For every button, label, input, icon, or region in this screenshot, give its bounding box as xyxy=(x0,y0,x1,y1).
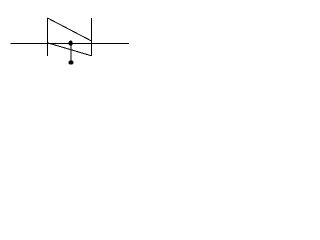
upper diagonal (top of left plate to wire level of right plate) xyxy=(48,18,92,41)
wire: right lead MT2 xyxy=(92,43,129,45)
left plate (electrode bar) xyxy=(47,18,49,56)
gate terminal ball xyxy=(69,60,74,64)
junction dot (gate node on wire) xyxy=(68,41,72,46)
lower diagonal (wire level of left plate to bottom of right plate) xyxy=(48,43,92,56)
triac Q1 (two electrode plates with anti-parallel triangle diagonals, gate tap with ball terminal) xyxy=(0,0,138,85)
right plate (electrode bar) xyxy=(91,18,93,56)
wire: left lead MT1 xyxy=(10,43,47,45)
gate stub wire xyxy=(70,43,72,61)
wire: middle segment between plates xyxy=(48,43,92,45)
